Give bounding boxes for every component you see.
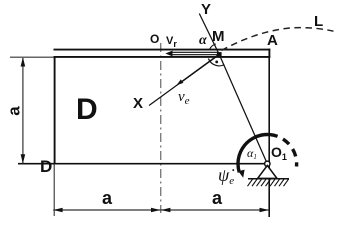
bottom dimension arrow far left: [53, 208, 62, 213]
Vr vector double-line shaft: [171, 51, 218, 53]
support triangle: [258, 166, 277, 179]
trajectory curve L (dashed): [222, 28, 334, 51]
label L: [314, 13, 323, 30]
bottom dimension arrow far right: [260, 208, 269, 213]
rail upper line: [54, 49, 271, 51]
rotation arc arrowhead: [238, 170, 244, 178]
bottom dimension line right segment: [161, 209, 269, 211]
label psi-dot e: [218, 165, 234, 187]
label alpha at O1: [247, 146, 257, 161]
dot inside angle arc: [215, 61, 218, 64]
label ve: [178, 89, 190, 107]
label Vr: [166, 35, 177, 49]
X axis line: [149, 54, 219, 105]
alpha angle arc at M: [209, 44, 215, 50]
label Y: [201, 1, 211, 18]
right-angle arc below M: [208, 59, 224, 66]
left dimension extension line at top: [10, 56, 54, 58]
label a bottom-left: [102, 188, 112, 209]
label D big (plate): [76, 93, 98, 127]
label a left (rotated): [5, 106, 25, 115]
plate D bottom edge (extended left as extension line): [18, 163, 269, 165]
pivot rotation arc dashed right part: [270, 135, 297, 167]
label O: [150, 32, 159, 46]
label D small (corner): [40, 157, 52, 177]
rail right end cap: [268, 49, 270, 58]
left dimension bottom arrowhead: [21, 154, 26, 163]
pivot rotation arc (psi_e), solid part: [238, 134, 270, 172]
pivot pin circle O1: [265, 161, 270, 166]
label alpha at M: [199, 33, 207, 49]
left extension line below plate (bottom dimension): [53, 164, 55, 216]
point M dot: [217, 52, 222, 57]
ground hatching: [248, 179, 289, 186]
label a bottom-right: [212, 188, 222, 209]
label X: [133, 95, 143, 112]
centerline through O (dash-dot vertical): [160, 43, 162, 213]
Vr arrowhead: [165, 51, 172, 57]
plate D left edge: [54, 56, 56, 164]
bottom dimension arrow center-left: [151, 208, 160, 213]
ve vector arrow along X: [180, 54, 220, 83]
bottom dimension line left segment: [53, 209, 161, 211]
label A: [267, 32, 278, 49]
ground line: [248, 178, 289, 180]
plate D right edge (extended down to dimension line): [268, 58, 270, 217]
rod O1-M extended as Y axis: [199, 14, 267, 164]
label M: [212, 28, 225, 45]
left dimension line a: [22, 58, 24, 164]
rail lower line: [54, 56, 271, 58]
label O1: [271, 144, 287, 162]
left dimension top arrowhead: [21, 57, 26, 66]
bottom dimension arrow center-right: [161, 208, 170, 213]
